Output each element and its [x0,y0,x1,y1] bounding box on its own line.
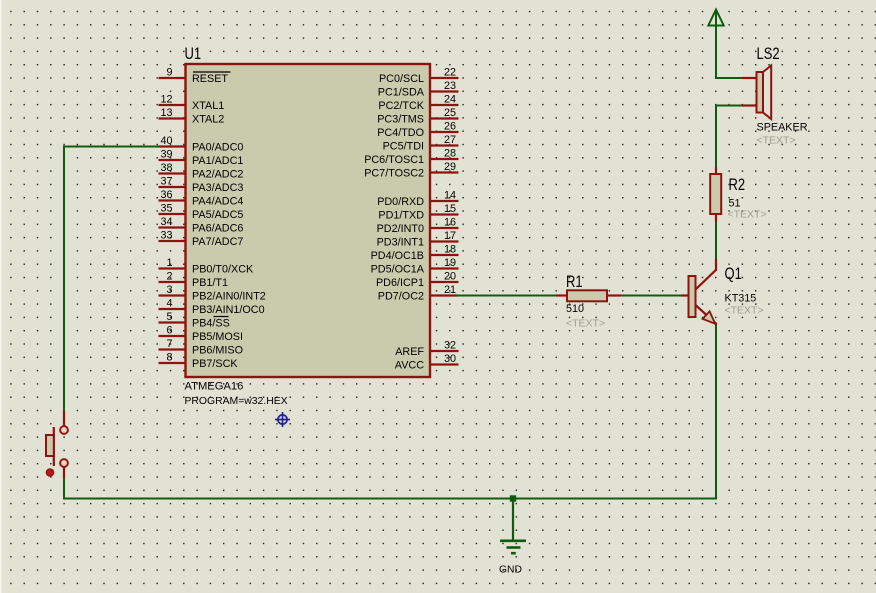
svg-text:PA1/ADC1: PA1/ADC1 [192,155,243,167]
svg-text:4: 4 [166,298,172,310]
wire: vertical down left side to button [63,146,65,413]
U1 pin 2 (PB1/T1) stub [159,271,229,290]
svg-text:22: 22 [444,67,456,79]
U1 pin 16 (PD2/INT0) stub [377,217,459,236]
svg-text:40: 40 [160,135,172,147]
svg-text:U1: U1 [185,44,202,63]
svg-text:PA5/ADC5: PA5/ADC5 [192,209,243,221]
U1 pin 4 (PB3/AIN1/OC0) stub [159,298,265,317]
svg-text:19: 19 [444,257,456,269]
svg-text:PB7/SCK: PB7/SCK [192,358,238,370]
svg-text:PB0/T0/XCK: PB0/T0/XCK [192,264,254,276]
resistor R2 pin stubs [715,168,717,222]
U1 pin 32 (AREF) stub [395,340,458,359]
svg-text:<TEXT>: <TEXT> [566,318,605,330]
wire: pin21 PD7/OC2 to R1 [456,295,557,297]
svg-text:1: 1 [166,257,172,269]
svg-text:25: 25 [444,107,456,119]
svg-text:12: 12 [160,94,172,106]
wire: R1 to Q1 base [621,295,683,297]
svg-text:PC4/TDO: PC4/TDO [377,127,424,139]
svg-text:PB3/AIN1/OC0: PB3/AIN1/OC0 [192,304,265,316]
push button terminals (circles) [60,426,68,467]
svg-text:24: 24 [444,94,456,106]
svg-text:PD5/OC1A: PD5/OC1A [371,264,425,276]
svg-text:20: 20 [444,271,456,283]
svg-text:PD0/RXD: PD0/RXD [377,196,424,208]
transistor Q1 base stub [681,294,689,296]
svg-text:PC2/TCK: PC2/TCK [378,100,424,112]
svg-text:39: 39 [160,149,172,161]
U1 pin 36 (PA4/ADC4) stub [159,189,244,208]
svg-text:36: 36 [160,189,172,201]
speaker LS2 pin stubs [742,78,757,106]
wire: pin40 PA0 to button (horizontal) [64,146,160,148]
svg-text:R1: R1 [566,272,583,291]
node: junction at GND tap [510,495,516,501]
svg-text:ATMEGA16: ATMEGA16 [185,381,244,393]
resistor R1 reference label [566,272,583,291]
svg-text:510: 510 [566,303,584,315]
U1 pin 23 (PC1/SDA) stub [378,80,459,99]
svg-text:6: 6 [166,325,172,337]
svg-text:PA3/ADC3: PA3/ADC3 [192,182,243,194]
svg-text:GND: GND [499,565,522,576]
svg-text:PA7/ADC7: PA7/ADC7 [192,236,243,248]
speaker LS2 symbol [757,66,772,120]
U1 pin 17 (PD3/INT1) stub [377,230,459,249]
svg-text:8: 8 [166,352,172,364]
transistor Q1 body (base bar, collector, emitter, arrow) [689,269,717,324]
svg-text:23: 23 [444,80,456,92]
power symbol (arrow up) [708,10,723,26]
wire: R2 top to speaker bottom terminal [715,105,743,169]
U1 pin 38 (PA2/ADC2) stub [159,162,244,181]
U1 pin 3 (PB2/AIN0/INT2) stub [159,284,266,303]
svg-text:RESET: RESET [192,73,228,85]
U1 pin 20 (PD6/ICP1) stub [376,271,459,290]
push button state dot [46,469,53,476]
svg-text:PB2/AIN0/INT2: PB2/AIN0/INT2 [192,291,266,303]
U1 pin 29 (PC7/TOSC2) stub [364,161,458,180]
node: origin marker (blue crosshair) [275,412,290,427]
svg-text:PD3/INT1: PD3/INT1 [377,237,424,249]
svg-text:PC7/TOSC2: PC7/TOSC2 [364,168,424,180]
resistor R1 pin stubs [556,294,621,296]
svg-text:PD4/OC1B: PD4/OC1B [371,250,424,262]
svg-text:18: 18 [444,244,456,256]
svg-text:PD2/INT0: PD2/INT0 [377,223,424,235]
IC U1 ATMEGA16 body [186,64,431,377]
U1 pin 8 (PB7/SCK) stub [159,352,239,371]
svg-text:9: 9 [166,67,172,79]
resistor R2 reference label [729,175,746,194]
svg-text:3: 3 [166,284,172,296]
svg-text:35: 35 [160,203,172,215]
svg-text:PC3/TMS: PC3/TMS [377,114,424,126]
ground symbol [500,541,526,553]
U1 pin 24 (PC2/TCK) stub [378,94,458,113]
resistor R2 body [710,174,721,214]
U1 pin 34 (PA6/ADC6) stub [159,216,244,235]
svg-text:13: 13 [160,107,172,119]
U1 pin 12 (XTAL1) stub [159,94,225,113]
svg-text:PROGRAM=w32.HEX: PROGRAM=w32.HEX [185,396,288,407]
U1 pin 1 (PB0/T0/XCK) stub [159,257,255,276]
U1 pin 39 (PA1/ADC1) stub [159,149,244,168]
svg-text:PB6/MISO: PB6/MISO [192,345,243,357]
svg-text:32: 32 [444,340,456,352]
U1 reference label [185,44,202,63]
U1 pin 30 (AVCC) stub [395,353,459,372]
wire: right vertical rail up to Q1 emitter [715,323,717,500]
wire: bottom ground rail [63,498,717,500]
U1 pin 21 (PD7/OC2) stub [378,284,459,303]
svg-text:34: 34 [160,216,172,228]
U1 pin 22 (PC0/SCL) stub [379,67,459,86]
svg-text:XTAL1: XTAL1 [192,100,224,112]
U1 pin 13 (XTAL2) stub [159,107,225,126]
U1 pin 35 (PA5/ADC5) stub [159,203,244,222]
svg-text:37: 37 [160,176,172,188]
svg-text:2: 2 [166,271,172,283]
svg-text:PD6/ICP1: PD6/ICP1 [376,277,424,289]
svg-text:AREF: AREF [395,346,424,358]
svg-text:27: 27 [444,134,456,146]
wire: Q1 collector up to R2 [715,222,717,261]
U1 pin 19 (PD5/OC1A) stub [371,257,459,276]
U1 value labels ATMEGA16 / PROGRAM=w32.HEX [185,381,288,407]
U1 pin 25 (PC3/TMS) stub [377,107,458,126]
U1 pin 15 (PD1/TXD) stub [378,203,458,222]
svg-text:PB1/T1: PB1/T1 [192,277,228,289]
svg-text:XTAL2: XTAL2 [192,114,224,126]
svg-text:30: 30 [444,353,456,365]
resistor R1 value labels [566,303,605,330]
svg-text:PB4/SS: PB4/SS [192,318,230,330]
svg-text:26: 26 [444,121,456,133]
U1 pin 40 (PA0/ADC0) stub [159,135,244,154]
U1 pin 27 (PC5/TDI) stub [383,134,459,153]
svg-text:PA2/ADC2: PA2/ADC2 [192,169,243,181]
U1 pin 5 (PB4/SS) stub [159,311,230,330]
speaker LS2 reference label [757,44,780,63]
svg-text:SPEAKER: SPEAKER [757,122,808,134]
resistor R2 value labels [728,198,767,221]
push button actuator [46,427,54,466]
ground GND label [499,565,522,576]
svg-text:R2: R2 [729,175,746,194]
svg-text:21: 21 [444,284,456,296]
svg-text:<TEXT>: <TEXT> [757,135,796,147]
U1 pin 9 (RESET) stub [159,67,231,86]
svg-text:17: 17 [444,230,456,242]
wire: power arrow down to speaker top terminal [715,12,743,79]
svg-text:5: 5 [166,311,172,323]
svg-text:PB5/MOSI: PB5/MOSI [192,331,243,343]
U1 pin 18 (PD4/OC1B) stub [371,244,459,263]
svg-text:PC5/TDI: PC5/TDI [383,141,424,153]
resistor R1 body [567,290,607,301]
svg-text:29: 29 [444,161,456,173]
svg-text:PD1/TXD: PD1/TXD [378,210,424,222]
transistor Q1 value labels [725,293,764,317]
U1 pin 7 (PB6/MISO) stub [159,338,244,357]
U1 pin 6 (PB5/MOSI) stub [159,325,244,344]
svg-text:AVCC: AVCC [395,360,424,372]
svg-text:38: 38 [160,162,172,174]
svg-text:<TEXT>: <TEXT> [728,209,767,221]
svg-text:KT315: KT315 [725,293,757,305]
push button top pin stub [63,411,65,426]
svg-text:Q1: Q1 [725,264,742,283]
svg-text:16: 16 [444,217,456,229]
svg-text:<TEXT>: <TEXT> [725,305,764,317]
svg-text:PA0/ADC0: PA0/ADC0 [192,142,243,154]
svg-text:15: 15 [444,203,456,215]
svg-text:28: 28 [444,148,456,160]
U1 pin 26 (PC4/TDO) stub [377,121,458,140]
svg-text:PC1/SDA: PC1/SDA [378,87,425,99]
svg-text:PA4/ADC4: PA4/ADC4 [192,196,243,208]
U1 pin 33 (PA7/ADC7) stub [159,230,244,249]
U1 pin 28 (PC6/TOSC1) stub [364,148,458,167]
speaker LS2 value labels [757,122,808,147]
svg-text:LS2: LS2 [757,44,780,63]
svg-text:PC6/TOSC1: PC6/TOSC1 [364,154,424,166]
U1 pin 14 (PD0/RXD) stub [377,190,458,209]
U1 pin 37 (PA3/ADC3) stub [159,176,244,195]
svg-text:7: 7 [166,338,172,350]
svg-text:PD7/OC2: PD7/OC2 [378,291,424,303]
svg-text:PA6/ADC6: PA6/ADC6 [192,223,243,235]
svg-text:33: 33 [160,230,172,242]
svg-text:14: 14 [444,190,456,202]
wire: GND tap vertical [512,499,514,541]
transistor Q1 collector stub [715,259,717,270]
svg-text:PC0/SCL: PC0/SCL [379,73,424,85]
wire: button to bottom rail (red stub + green) [63,467,65,499]
transistor Q1 reference label [725,264,742,283]
